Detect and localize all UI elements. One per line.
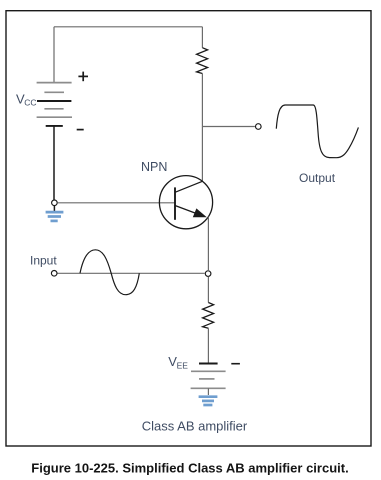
transistor emitter diagonal: [175, 206, 198, 215]
output waveform (clipped sine): [276, 105, 358, 158]
svg-text:Figure 10-225. Simplified Clas: Figure 10-225. Simplified Class AB ampli…: [31, 460, 348, 475]
ground (bottom, blue): [199, 397, 218, 405]
wire base (ground node to transistor base): [58, 202, 175, 204]
transistor base bar: [174, 187, 176, 219]
wire top horizontal (Vcc to R1): [54, 26, 202, 28]
minus sign (Vee): [231, 363, 240, 365]
wire left vertical (top corner to Vcc +): [53, 27, 55, 83]
input junction node: [205, 271, 211, 277]
wire collector drop to R1 top: [201, 27, 203, 48]
transistor Q1 circle: [159, 176, 212, 229]
svg-text:Class AB amplifier: Class AB amplifier: [142, 418, 248, 433]
ground stem: [53, 206, 55, 211]
emitter arrowhead: [193, 208, 207, 217]
battery V_CC plate 1 long: [37, 82, 72, 84]
wire R1 bottom to collector node: [201, 74, 203, 182]
output terminal node: [255, 124, 261, 130]
battery V_CC plate 4 short: [44, 108, 63, 110]
svg-text:EE: EE: [177, 361, 189, 371]
battery V_CC plate 3 long black: [37, 100, 71, 102]
battery V_CC plate 6 short black: [46, 125, 63, 127]
battery V_EE plate 3 short: [199, 378, 215, 380]
svg-text:Input: Input: [30, 254, 57, 268]
wire Vcc minus down to ground node: [53, 126, 55, 200]
ground stem (bottom): [207, 388, 209, 395]
wire node to R2 top: [207, 277, 209, 303]
battery V_EE plate 2 long: [191, 370, 226, 372]
wire input: [58, 272, 205, 274]
battery V_EE plate 4 long: [191, 387, 226, 389]
label V_EE: [168, 354, 188, 370]
battery V_CC plate 5 long: [37, 116, 72, 118]
ground (left, blue): [46, 212, 64, 221]
ground node circle: [52, 200, 58, 206]
resistor R2 (emitter): [203, 303, 214, 329]
battery V_CC plate 2 short: [44, 91, 64, 93]
battery V_EE plate 1 short black: [199, 363, 218, 365]
minus sign (Vcc): [77, 129, 84, 131]
plus sign: [78, 72, 88, 82]
input terminal node: [51, 271, 57, 277]
wire R2 bottom to Vee: [207, 328, 209, 363]
input sine wave: [80, 250, 139, 295]
wire emitter down to input node: [207, 217, 209, 270]
wire output stub: [202, 126, 255, 128]
label V_CC: [16, 91, 37, 107]
resistor R1 (collector load): [197, 48, 208, 74]
transistor collector diagonal: [175, 181, 203, 192]
svg-text:Output: Output: [299, 171, 336, 185]
svg-text:NPN: NPN: [141, 160, 167, 174]
svg-text:CC: CC: [24, 98, 36, 108]
